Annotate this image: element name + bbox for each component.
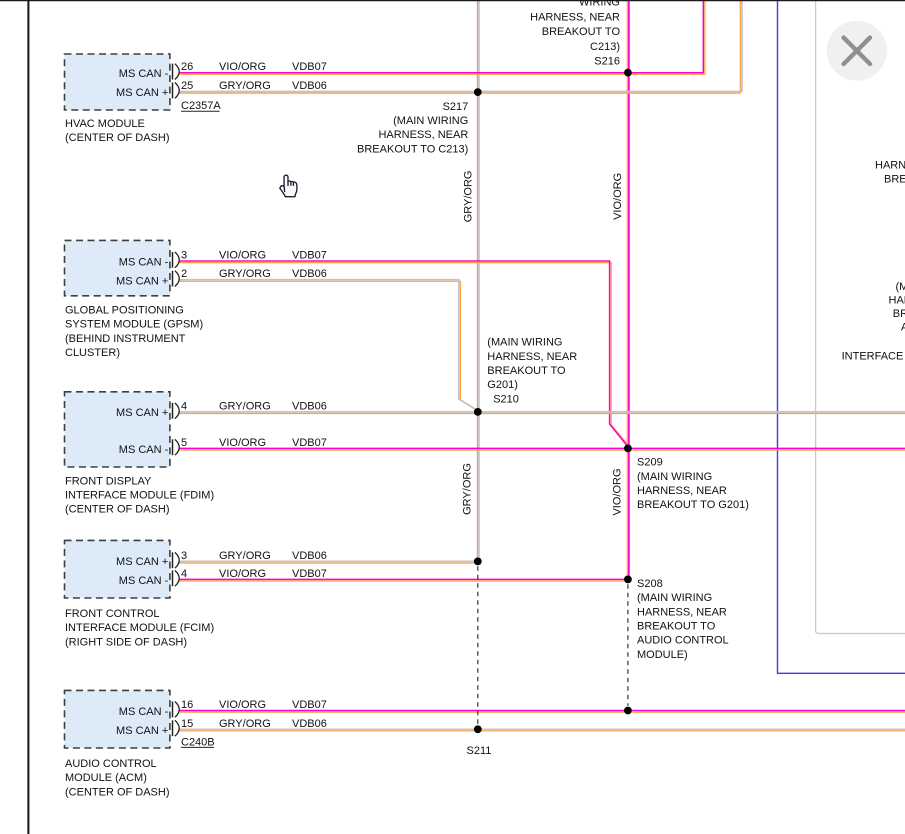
svg-text:SYSTEM MODULE (GPSM): SYSTEM MODULE (GPSM) xyxy=(65,319,203,331)
svg-text:(MAIN WIRING: (MAIN WIRING xyxy=(637,592,712,604)
svg-text:BREAKOUT TO: BREAKOUT TO xyxy=(542,26,621,38)
wire HVAC pin26 VIO/ORG VDB07 (to top via x=703) xyxy=(179,0,705,74)
wire GPSM pin2 GRY/ORG VDB06 (down to S210) xyxy=(179,281,479,411)
svg-text:VIO/ORG: VIO/ORG xyxy=(219,568,266,580)
svg-text:(CENTER OF DASH): (CENTER OF DASH) xyxy=(65,132,170,144)
svg-text:VDB07: VDB07 xyxy=(292,437,327,449)
node S209 junction xyxy=(624,445,632,453)
svg-text:(CENTER OF DASH): (CENTER OF DASH) xyxy=(65,504,170,516)
svg-text:CLUSTER): CLUSTER) xyxy=(65,347,120,359)
svg-text:AUDIO CONTROL: AUDIO CONTROL xyxy=(637,635,729,647)
svg-text:G201): G201) xyxy=(487,379,518,391)
frame: top border line xyxy=(0,0,905,2)
svg-text:HARNESS, NEAR: HARNESS, NEAR xyxy=(487,351,577,363)
svg-text:HARNESS, NEAR: HARNESS, NEAR xyxy=(637,606,727,618)
svg-text:(MAIN WIRING: (MAIN WIRING xyxy=(487,337,562,349)
svg-text:VDB07: VDB07 xyxy=(292,699,327,711)
svg-text:4: 4 xyxy=(181,400,187,412)
svg-text:VIO/ORG: VIO/ORG xyxy=(219,699,266,711)
node S210 junction xyxy=(474,408,482,416)
svg-text:VDB06: VDB06 xyxy=(292,268,327,280)
svg-text:VDB07: VDB07 xyxy=(292,568,327,580)
svg-text:VIO/ORG: VIO/ORG xyxy=(611,468,623,515)
wire GPSM pin3 VIO/ORG VDB07 (down to S209) xyxy=(179,263,629,446)
connector pin symbol at y=729 xyxy=(172,720,174,736)
svg-text:GRY/ORG: GRY/ORG xyxy=(463,171,475,223)
connector pin symbol at y=280 xyxy=(172,271,174,287)
svg-text:MS CAN +: MS CAN + xyxy=(116,725,168,737)
wire ACM pin15 GRY/ORG VDB06 (to right edge) xyxy=(179,730,905,732)
svg-text:MS CAN +: MS CAN + xyxy=(116,87,168,99)
svg-text:MS CAN -: MS CAN - xyxy=(119,257,169,269)
svg-text:MS CAN +: MS CAN + xyxy=(116,556,168,568)
svg-text:HARNESS, NEAR: HARNESS, NEAR xyxy=(637,485,727,497)
svg-text:MS CAN -: MS CAN - xyxy=(119,575,169,587)
module ACM box xyxy=(65,690,170,748)
svg-text:VDB06: VDB06 xyxy=(292,550,327,562)
svg-text:MS CAN +: MS CAN + xyxy=(116,275,168,287)
svg-text:C2357A: C2357A xyxy=(181,100,221,112)
module FDIM box xyxy=(65,392,170,467)
svg-text:S211: S211 xyxy=(467,745,492,757)
svg-text:AUDIO CONTROL: AUDIO CONTROL xyxy=(65,758,157,770)
svg-text:GRY/ORG: GRY/ORG xyxy=(219,80,271,92)
svg-text:25: 25 xyxy=(181,80,193,92)
svg-text:BREAKOUT TO: BREAKOUT TO xyxy=(884,174,905,186)
svg-text:BREAKOUT TO: BREAKOUT TO xyxy=(637,621,716,633)
module HVAC MODULE box xyxy=(65,54,170,110)
svg-text:MS CAN -: MS CAN - xyxy=(119,68,169,80)
connector pin symbol at y=261 xyxy=(172,252,174,268)
node S217 junction xyxy=(474,88,482,96)
wire: VIO/ORG vertical trunk x=628.5 from top to S208 xyxy=(626,0,628,579)
svg-text:MODULE (ACM): MODULE (ACM) xyxy=(65,772,147,784)
connector pin symbol at y=412 xyxy=(172,403,174,419)
svg-text:GRY/ORG: GRY/ORG xyxy=(219,718,271,730)
svg-text:HARNESS, NEAR: HARNESS, NEAR xyxy=(530,12,620,24)
svg-text:AUDIO: AUDIO xyxy=(901,322,905,334)
svg-text:HVAC MODULE: HVAC MODULE xyxy=(65,118,145,130)
svg-text:3: 3 xyxy=(181,550,187,562)
svg-text:S216: S216 xyxy=(594,56,620,68)
hand (pointer) cursor xyxy=(280,175,297,197)
svg-text:26: 26 xyxy=(181,61,193,73)
node S208 junction xyxy=(624,576,632,584)
wire FDIM pin5 VIO/ORG VDB07 (to right edge) xyxy=(179,449,905,451)
svg-text:GRY/ORG: GRY/ORG xyxy=(219,400,271,412)
svg-text:VDB06: VDB06 xyxy=(292,718,327,730)
dashed link from S208 down to ACM wire junction xyxy=(627,584,629,706)
connector pin symbol at y=710 xyxy=(172,702,174,718)
connector pin symbol at y=73 xyxy=(172,64,174,80)
svg-text:(MAIN WIRING: (MAIN WIRING xyxy=(393,115,468,127)
svg-text:WIRING: WIRING xyxy=(579,0,620,8)
connector pin symbol at y=92 xyxy=(172,83,174,99)
svg-text:C213): C213) xyxy=(590,41,620,53)
svg-text:2: 2 xyxy=(181,268,187,280)
svg-text:BREAKOUT TO G201): BREAKOUT TO G201) xyxy=(637,499,749,511)
connector pin symbol at y=579 xyxy=(172,570,174,586)
svg-text:BREAKOUT TO C213): BREAKOUT TO C213) xyxy=(357,143,468,155)
wire: GRY/ORG vertical trunk x=478 from top to FCIM junction xyxy=(476,0,478,561)
node S216 junction xyxy=(624,69,632,77)
svg-text:GRY/ORG: GRY/ORG xyxy=(219,550,271,562)
svg-text:MS CAN +: MS CAN + xyxy=(116,407,168,419)
gray page-frame box (top-right, partially off-screen) xyxy=(816,0,905,634)
connector pin symbol at y=561 xyxy=(172,552,174,568)
node ACM VIO dashed junction xyxy=(624,707,632,715)
svg-text:(RIGHT SIDE OF DASH): (RIGHT SIDE OF DASH) xyxy=(65,636,187,648)
dashed link from FCIM junction down to S211 xyxy=(477,566,479,725)
svg-text:S208: S208 xyxy=(637,578,663,590)
svg-text:VDB06: VDB06 xyxy=(292,400,327,412)
svg-text:(MAIN WIRING: (MAIN WIRING xyxy=(637,471,712,483)
svg-text:(CENTER OF DASH): (CENTER OF DASH) xyxy=(65,786,170,798)
frame: left vertical border line xyxy=(27,0,29,834)
blue highlight box border (partially off-screen right) xyxy=(778,0,905,673)
wire FCIM pin4 VIO/ORG VDB07 (to S208) xyxy=(179,580,628,582)
svg-text:MS CAN -: MS CAN - xyxy=(119,706,169,718)
svg-text:MODULE): MODULE) xyxy=(637,649,688,661)
wire HVAC pin25 GRY/ORG VDB06 (to top via x=741) xyxy=(179,0,741,93)
svg-text:4: 4 xyxy=(181,568,187,580)
svg-text:FRONT DISPLAY: FRONT DISPLAY xyxy=(65,475,152,487)
svg-text:16: 16 xyxy=(181,699,193,711)
svg-text:INTERFACE MO: INTERFACE MO xyxy=(842,351,905,363)
svg-text:15: 15 xyxy=(181,718,193,730)
svg-text:MS CAN -: MS CAN - xyxy=(119,444,169,456)
wire ACM pin16 VIO/ORG VDB07 (to right edge) xyxy=(179,711,905,713)
module GPSM box xyxy=(65,240,170,295)
svg-text:S210: S210 xyxy=(493,393,519,405)
node S211 junction xyxy=(474,725,482,733)
svg-text:VIO/ORG: VIO/ORG xyxy=(219,250,266,262)
svg-text:BREAKOUT TO: BREAKOUT TO xyxy=(893,308,905,320)
svg-text:HARNESS, NEAR: HARNESS, NEAR xyxy=(875,159,905,171)
svg-text:S209: S209 xyxy=(637,457,663,469)
svg-text:HARNESS, NEAR: HARNESS, NEAR xyxy=(889,295,905,307)
svg-text:C240B: C240B xyxy=(181,736,215,748)
svg-text:FRONT CONTROL: FRONT CONTROL xyxy=(65,608,160,620)
node FCIM trunk junction xyxy=(474,558,482,566)
svg-text:5: 5 xyxy=(181,437,187,449)
svg-text:GRY/ORG: GRY/ORG xyxy=(219,268,271,280)
wire FDIM pin4 GRY/ORG VDB06 (to right edge) xyxy=(179,413,905,415)
svg-text:BREAKOUT TO: BREAKOUT TO xyxy=(487,365,566,377)
svg-text:VIO/ORG: VIO/ORG xyxy=(219,437,266,449)
svg-text:VDB06: VDB06 xyxy=(292,80,327,92)
svg-text:INTERFACE MODULE (FDIM): INTERFACE MODULE (FDIM) xyxy=(65,490,214,502)
svg-text:VIO/ORG: VIO/ORG xyxy=(219,61,266,73)
svg-text:HARNESS, NEAR: HARNESS, NEAR xyxy=(378,129,468,141)
svg-text:INTERFACE MODULE (FCIM): INTERFACE MODULE (FCIM) xyxy=(65,622,214,634)
svg-text:VDB07: VDB07 xyxy=(292,61,327,73)
wire FCIM pin3 GRY/ORG VDB06 (to trunk junction) xyxy=(179,562,478,564)
svg-text:GRY/ORG: GRY/ORG xyxy=(461,463,473,515)
svg-text:VDB07: VDB07 xyxy=(292,250,327,262)
svg-text:(MAIN WIRING: (MAIN WIRING xyxy=(896,281,905,293)
connector pin symbol at y=448 xyxy=(172,439,174,455)
svg-text:S217: S217 xyxy=(443,101,469,113)
svg-text:3: 3 xyxy=(181,250,187,262)
svg-text:(BEHIND INSTRUMENT: (BEHIND INSTRUMENT xyxy=(65,333,186,345)
svg-text:VIO/ORG: VIO/ORG xyxy=(612,173,624,220)
close (X) button top right xyxy=(827,21,887,81)
svg-text:GLOBAL POSITIONING: GLOBAL POSITIONING xyxy=(65,304,184,316)
module FCIM box xyxy=(65,540,170,598)
